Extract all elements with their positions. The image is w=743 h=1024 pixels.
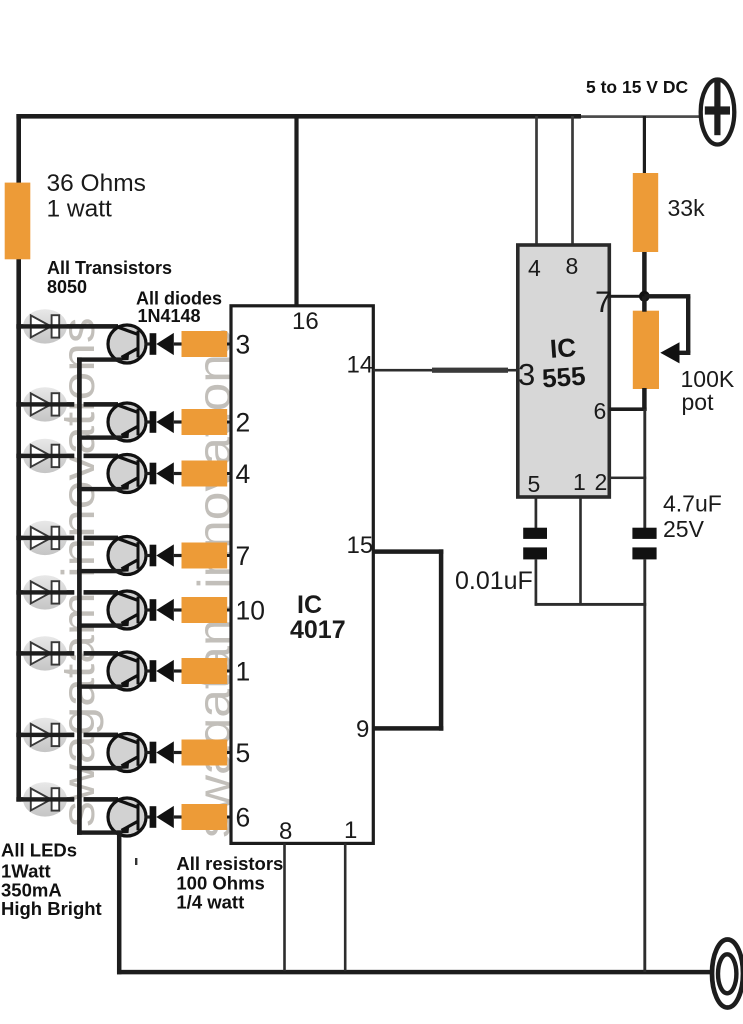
wire: 4017 pin14 to 555 pin3 <box>373 369 518 372</box>
transistor row 3 (8050) <box>108 455 146 493</box>
resistor row 2 (100 ohm) to pin 2 <box>182 409 228 435</box>
wire: junction to pot top <box>642 296 647 311</box>
wire: row 8 LED-to-collector <box>16 797 74 801</box>
IC U1 4017 body <box>231 306 373 844</box>
wire: resistor row 5 to IC pin stub <box>227 609 232 612</box>
wire: 4017 pin15 to pin9 loop <box>373 549 443 730</box>
transistor row 7 (8050) <box>108 734 146 772</box>
resistor row 4 (100 ohm) to pin 7 <box>182 543 228 569</box>
svg-text:7: 7 <box>595 286 612 319</box>
svg-text:4.7uF: 4.7uF <box>663 491 722 517</box>
svg-text:100 Ohms: 100 Ohms <box>176 873 264 894</box>
wire: resistor row 1 to IC pin stub <box>227 343 232 346</box>
wire: ground drop from last emitter <box>117 830 122 974</box>
wire: bottom ground rail <box>117 970 711 975</box>
transistor row 5 (8050) <box>108 591 146 629</box>
wire: resistor row 2 to IC pin stub <box>227 421 232 424</box>
resistor row 8 (100 ohm) to pin 6 <box>182 804 228 830</box>
wire: resistor row 3 to IC pin stub <box>227 472 232 475</box>
wire: row 5 emitter to trunk <box>77 623 122 627</box>
wire: vertical pin6-to-cap <box>643 409 646 528</box>
wire: top positive supply rail <box>16 114 581 119</box>
transistor row 6 (8050) <box>108 652 146 690</box>
svg-text:9: 9 <box>356 716 369 743</box>
transistor row 1 (8050) <box>108 325 146 363</box>
wire: cap bottoms horizontal join <box>535 603 647 606</box>
wire: resistor row 6 to IC pin stub <box>227 670 232 673</box>
wire: row 1 LED-to-collector <box>16 324 118 328</box>
capacitor 4.7uF 25V <box>632 528 656 560</box>
junction node at pin7/33k/pot <box>639 291 650 302</box>
LED row 3 <box>16 439 118 473</box>
diode row 6 (1N4148) <box>145 660 182 682</box>
wire: 0.01uF bottom drop <box>535 559 538 605</box>
svg-text:1N4148: 1N4148 <box>138 306 201 326</box>
LED row 2 <box>16 387 118 421</box>
transistor row 8 (8050) <box>108 798 146 836</box>
diode row 5 (1N4148) <box>145 599 182 621</box>
svg-text:IC: IC <box>297 591 322 619</box>
diode row 3 (1N4148) <box>145 462 182 484</box>
wire: 555 pin6 to vertical <box>609 407 646 411</box>
wire: row 2 emitter to trunk <box>77 435 122 439</box>
pot wiper arrowhead <box>660 342 679 363</box>
svg-text:36 Ohms: 36 Ohms <box>47 170 146 197</box>
wire: 4.7uF bottom down to ground rail <box>643 559 646 972</box>
svg-text:10: 10 <box>236 596 265 626</box>
diode row 4 (1N4148) <box>145 544 182 566</box>
wire: 555 pin5 drop to 0.01uF <box>535 497 538 528</box>
svg-text:33k: 33k <box>668 195 706 221</box>
wire: row 7 emitter to trunk <box>77 766 122 770</box>
transistor row 4 (8050) <box>108 537 146 575</box>
svg-text:pot: pot <box>682 389 715 415</box>
svg-text:555: 555 <box>541 361 586 394</box>
stray ink mark <box>135 858 137 865</box>
diode row 7 (1N4148) <box>145 741 182 763</box>
wire: row 2 LED-to-collector <box>16 402 74 406</box>
IC U2 555 body <box>518 245 610 497</box>
svg-text:All Transistors: All Transistors <box>47 258 172 278</box>
svg-text:3: 3 <box>236 330 251 360</box>
svg-text:8050: 8050 <box>47 277 87 297</box>
resistor row 5 (100 ohm) to pin 10 <box>182 597 228 623</box>
wire: row 4 emitter to trunk <box>77 569 122 573</box>
resistor 33k <box>633 173 658 252</box>
IC 555 designator text <box>539 332 586 394</box>
svg-text:1: 1 <box>236 657 251 687</box>
svg-text:6: 6 <box>236 803 251 833</box>
diode row 8 (1N4148) <box>145 806 182 828</box>
LED row 4 <box>16 521 118 555</box>
wire: row 3 emitter to trunk <box>77 487 122 491</box>
svg-text:2: 2 <box>236 408 251 438</box>
capacitor 0.01uF <box>523 528 547 560</box>
wire: 33k bottom to pin7 junction <box>642 252 647 299</box>
wire: row 6 emitter to trunk <box>77 684 122 688</box>
terminal: positive supply (+) <box>701 80 735 145</box>
svg-text:3: 3 <box>518 357 535 392</box>
svg-text:1/4 watt: 1/4 watt <box>176 892 244 913</box>
wire: 4017 pin1 drop to ground rail <box>344 843 347 971</box>
wire: 555 pin4 drop from supply rail <box>535 116 538 246</box>
diode row 2 (1N4148) <box>145 411 182 433</box>
LED row 7 <box>16 718 118 752</box>
wire: pot bottom to pin6 line <box>642 388 647 411</box>
wire: resistor row 4 to IC pin stub <box>227 554 232 557</box>
svg-text:6: 6 <box>594 398 607 424</box>
wire: row 4 LED-to-collector <box>16 536 74 540</box>
svg-text:5 to 15 V DC: 5 to 15 V DC <box>586 77 688 97</box>
resistor 36 Ohms 1 watt (inline on left bus) <box>5 183 31 260</box>
wire: 555 pin1 drop to join <box>579 497 582 604</box>
terminal: negative supply <box>712 940 743 1008</box>
resistor row 3 (100 ohm) to pin 4 <box>182 461 228 487</box>
svg-text:8: 8 <box>279 818 292 845</box>
svg-text:All resistors: All resistors <box>176 853 283 874</box>
wire: thin supply continuation to + terminal <box>581 115 701 118</box>
svg-text:All LEDs: All LEDs <box>1 839 77 860</box>
svg-text:25V: 25V <box>663 516 705 542</box>
svg-text:4: 4 <box>528 255 541 281</box>
wire: row 6 LED-to-collector <box>16 651 74 655</box>
resistor row 7 (100 ohm) to pin 5 <box>182 740 228 766</box>
LED row 6 <box>16 636 118 670</box>
wire: 33k feed from supply rail <box>643 116 646 174</box>
wire: 4017 pin8 drop to ground rail <box>283 843 286 971</box>
wire: junction to pot wiper loop <box>644 294 690 355</box>
wire: resistor row 7 to IC pin stub <box>227 751 232 754</box>
svg-text:8: 8 <box>566 253 579 279</box>
svg-text:7: 7 <box>236 541 251 571</box>
svg-text:14: 14 <box>347 352 374 379</box>
svg-text:2: 2 <box>595 469 608 495</box>
wire: 555 pin2 stub <box>609 477 646 480</box>
LED row 8 <box>16 782 118 816</box>
svg-text:High Bright: High Bright <box>1 898 102 919</box>
LED row 5 <box>16 575 118 609</box>
svg-text:4017: 4017 <box>290 616 346 644</box>
wire: row 8 emitter to trunk <box>77 830 122 834</box>
wire: 555 pin8 drop from supply rail <box>571 116 574 246</box>
resistor row 6 (100 ohm) to pin 1 <box>182 658 228 684</box>
wire: row 5 LED-to-collector <box>16 590 74 594</box>
svg-text:16: 16 <box>292 308 319 335</box>
svg-text:4: 4 <box>236 459 251 489</box>
resistor row 1 (100 ohm) to pin 3 <box>182 331 228 357</box>
wire: row 1 emitter to trunk <box>77 357 122 361</box>
transistor row 2 (8050) <box>108 403 146 441</box>
wire: 555 pin7 stub to junction <box>609 295 643 298</box>
svg-text:5: 5 <box>236 738 251 768</box>
wire: row 3 LED-to-collector <box>16 454 74 458</box>
wire: row 7 LED-to-collector <box>16 733 74 737</box>
wire: resistor row 8 to IC pin stub <box>227 816 232 819</box>
wire: pin16 drop from supply rail <box>294 116 298 307</box>
diode row 1 (1N4148) <box>145 333 182 355</box>
svg-text:1Watt: 1Watt <box>1 860 51 881</box>
svg-text:1: 1 <box>344 817 357 844</box>
wire: left vertical bus (LED anode bus) <box>16 114 21 802</box>
wire: emitter trunk vertical <box>77 357 82 834</box>
svg-text:15: 15 <box>347 532 374 559</box>
svg-text:5: 5 <box>528 471 541 497</box>
svg-text:1 watt: 1 watt <box>47 196 113 223</box>
svg-text:0.01uF: 0.01uF <box>455 567 533 595</box>
svg-text:IC: IC <box>549 332 577 364</box>
potentiometer 100K body <box>633 311 659 389</box>
svg-text:1: 1 <box>573 469 586 495</box>
LED row 1 <box>16 309 118 343</box>
